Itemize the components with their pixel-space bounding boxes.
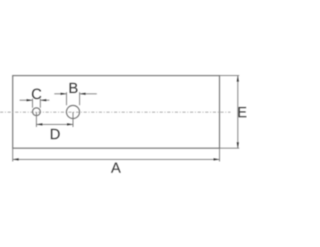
- hole large circle: [66, 105, 79, 118]
- dimension D extension lines: [35, 112, 37, 127]
- arrow C right (outside, pointing left): [40, 99, 46, 101]
- arrow D right (inside, pointing right): [67, 123, 73, 125]
- dimension A extension lines: [12, 148, 14, 161]
- arrow E top (inside, pointing up): [237, 76, 239, 82]
- dimension B line right tail: [80, 93, 97, 95]
- dimension C line left tail: [20, 99, 33, 101]
- dimension A line: [13, 158, 220, 160]
- dimension C line right tail: [40, 99, 49, 101]
- arrow D left (inside, pointing left): [36, 123, 42, 125]
- part outline rectangle: [13, 76, 220, 149]
- dimension E line: [237, 76, 239, 149]
- label A: [111, 163, 121, 173]
- arrow C left (outside, pointing right): [27, 99, 33, 101]
- arrow E bottom (inside, pointing down): [237, 142, 239, 148]
- arrow A right (inside, pointing right): [214, 158, 220, 160]
- label C: [32, 89, 41, 99]
- centerline: [0, 111, 231, 113]
- label D: [51, 129, 60, 139]
- arrow B right (outside, pointing left): [80, 93, 86, 95]
- label B: [70, 83, 78, 93]
- arrow A left (inside, pointing left): [13, 158, 19, 160]
- hole small circle: [33, 108, 41, 116]
- label E: [238, 107, 246, 117]
- dimension B line left tail: [54, 93, 66, 95]
- dimension C extension lines: [32, 99, 34, 108]
- dimension D line: [36, 123, 73, 125]
- arrow B left (outside, pointing right): [61, 93, 67, 95]
- dimension E extension lines: [220, 75, 240, 77]
- dimension B extension lines: [66, 92, 68, 105]
